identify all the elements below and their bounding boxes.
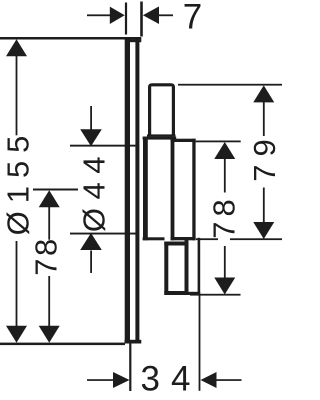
arrowhead pointing left xyxy=(143,6,159,24)
body rear right edge xyxy=(192,139,195,241)
extension line top xyxy=(70,145,139,147)
extension line top xyxy=(196,141,241,143)
arrowhead pointing down xyxy=(214,278,235,295)
valve body rear section xyxy=(171,139,196,241)
upper handle stem xyxy=(147,83,176,137)
dimension diameter 155 (plate height, left) xyxy=(0,37,125,345)
body rear left edge xyxy=(171,139,175,241)
centreline reference xyxy=(33,189,78,191)
plate back face edge xyxy=(135,37,139,344)
svg-text:34: 34 xyxy=(141,360,202,399)
plate front face edge xyxy=(125,37,130,344)
dimension line lower segment xyxy=(16,241,18,326)
svg-text:7: 7 xyxy=(183,0,202,37)
dimension line upper segment xyxy=(263,101,265,136)
dimension 7 (plate thickness, top) xyxy=(87,0,202,37)
lower stem left edge xyxy=(164,242,168,296)
extension line bottom xyxy=(0,343,125,346)
valve body front section xyxy=(143,137,177,241)
dimension line upper segment xyxy=(48,206,50,240)
lower stem bottom edge xyxy=(164,291,188,295)
svg-text:Ø155: Ø155 xyxy=(0,128,35,236)
extension line bottom xyxy=(70,233,139,235)
arrowhead pointing right xyxy=(110,7,125,24)
stem outline (rounded top) xyxy=(148,83,175,136)
svg-text:78: 78 xyxy=(206,194,241,238)
dimension line upper segment xyxy=(224,159,226,193)
arrowhead pointing down xyxy=(253,222,274,239)
dimension diameter 44 (cartridge, centre) xyxy=(70,106,139,273)
dimension 79 (stem top to body bottom, right) xyxy=(178,84,282,240)
arrowhead pointing down xyxy=(39,326,60,343)
dimension 34 (total projection depth, bottom) xyxy=(87,295,242,399)
body front top edge xyxy=(143,137,177,140)
extension line bottom xyxy=(190,294,241,296)
dimension line lower segment xyxy=(224,246,226,278)
arrowhead pointing left xyxy=(201,372,217,388)
svg-text:78: 78 xyxy=(28,236,63,275)
body front left edge xyxy=(143,137,148,241)
leader line right xyxy=(159,14,173,16)
dimension line upper segment xyxy=(16,55,18,135)
lower right collar xyxy=(189,238,201,295)
dimension line lower segment xyxy=(48,276,50,326)
collar bottom edge xyxy=(189,292,201,295)
extension line top xyxy=(178,84,282,86)
leader line left xyxy=(87,14,110,16)
arrowhead pointing up xyxy=(80,233,102,250)
body rear top edge xyxy=(171,139,196,142)
body rear bottom edge xyxy=(171,237,196,240)
escutcheon plate (side view, 155 high x 7 thick) xyxy=(125,37,142,344)
extension line right xyxy=(140,2,143,37)
dimension line lower segment xyxy=(263,188,265,223)
extension line bottom left part xyxy=(196,238,218,240)
svg-text:79: 79 xyxy=(247,131,282,181)
arrowhead pointing down xyxy=(80,129,102,146)
leader line top xyxy=(90,106,92,130)
collar right edge xyxy=(198,238,201,295)
lower stem top edge xyxy=(164,242,188,246)
plate bottom edge xyxy=(125,340,142,344)
plate top edge xyxy=(125,37,142,40)
extension line top xyxy=(0,37,125,40)
arrowhead pointing up xyxy=(253,85,274,102)
dimension 78 (plate centre to bottom, left) xyxy=(28,189,78,343)
arrowhead pointing right xyxy=(113,372,130,388)
arrowhead pointing down xyxy=(6,326,27,343)
svg-text:Ø44: Ø44 xyxy=(76,148,111,232)
body front bottom edge xyxy=(143,237,165,240)
dimension 78 (body top to lower stem bottom, right) xyxy=(190,141,241,296)
lower stem right edge xyxy=(185,238,189,296)
leader line bottom xyxy=(90,251,92,274)
extension line left xyxy=(129,344,131,392)
stem to body junction line xyxy=(147,134,176,136)
extension line left xyxy=(125,3,127,35)
extension line right xyxy=(199,295,201,391)
lower handle stem xyxy=(164,238,188,296)
arrowhead pointing up xyxy=(214,142,235,159)
arrowhead pointing up xyxy=(39,190,60,207)
extension line bottom right part xyxy=(230,238,282,240)
leader line left xyxy=(87,379,113,381)
plate top edge step xyxy=(130,40,142,43)
arrowhead pointing up xyxy=(6,39,27,56)
leader line right xyxy=(217,379,242,381)
